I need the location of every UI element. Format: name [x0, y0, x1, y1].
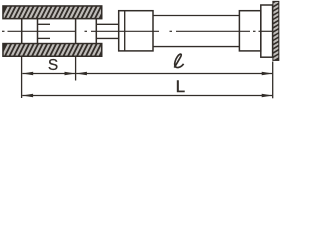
upper clamped plate (section, hatched) — [2, 4, 109, 20]
thread runout face — [37, 19, 39, 44]
arrowhead l left — [76, 72, 87, 76]
collar face line — [124, 11, 126, 51]
flange disc — [261, 5, 273, 57]
label l (script ell) — [174, 54, 183, 68]
shank upper edge — [153, 15, 239, 17]
arrowhead l right — [262, 72, 273, 76]
centerline — [2, 30, 273, 32]
thread root line upper — [38, 23, 51, 25]
svg-text:L: L — [176, 77, 185, 96]
thread root line lower — [38, 37, 51, 39]
extension line left (screw tip) — [21, 57, 23, 98]
extension line right (flange face) — [272, 62, 274, 99]
arrowhead S left — [22, 72, 33, 76]
arrowhead L left — [22, 94, 33, 98]
shank lower edge — [153, 46, 239, 48]
dimension line S — [22, 73, 75, 75]
dimension line L — [22, 95, 272, 97]
dimension line l — [76, 73, 272, 75]
extension line thread end — [75, 57, 77, 81]
screw tip face — [21, 19, 23, 44]
wall (section, hatched) — [271, 0, 281, 61]
lower clamped plate (section, hatched) — [2, 42, 109, 58]
arrowhead S right — [65, 72, 76, 76]
neck upper edge — [96, 23, 119, 25]
collar — [119, 11, 153, 51]
thread end face — [75, 19, 77, 44]
neck lower edge — [96, 37, 119, 39]
svg-text:S: S — [48, 57, 58, 74]
arrowhead L right — [262, 94, 273, 98]
head disc — [239, 11, 260, 51]
body face at plate exit — [95, 19, 97, 44]
